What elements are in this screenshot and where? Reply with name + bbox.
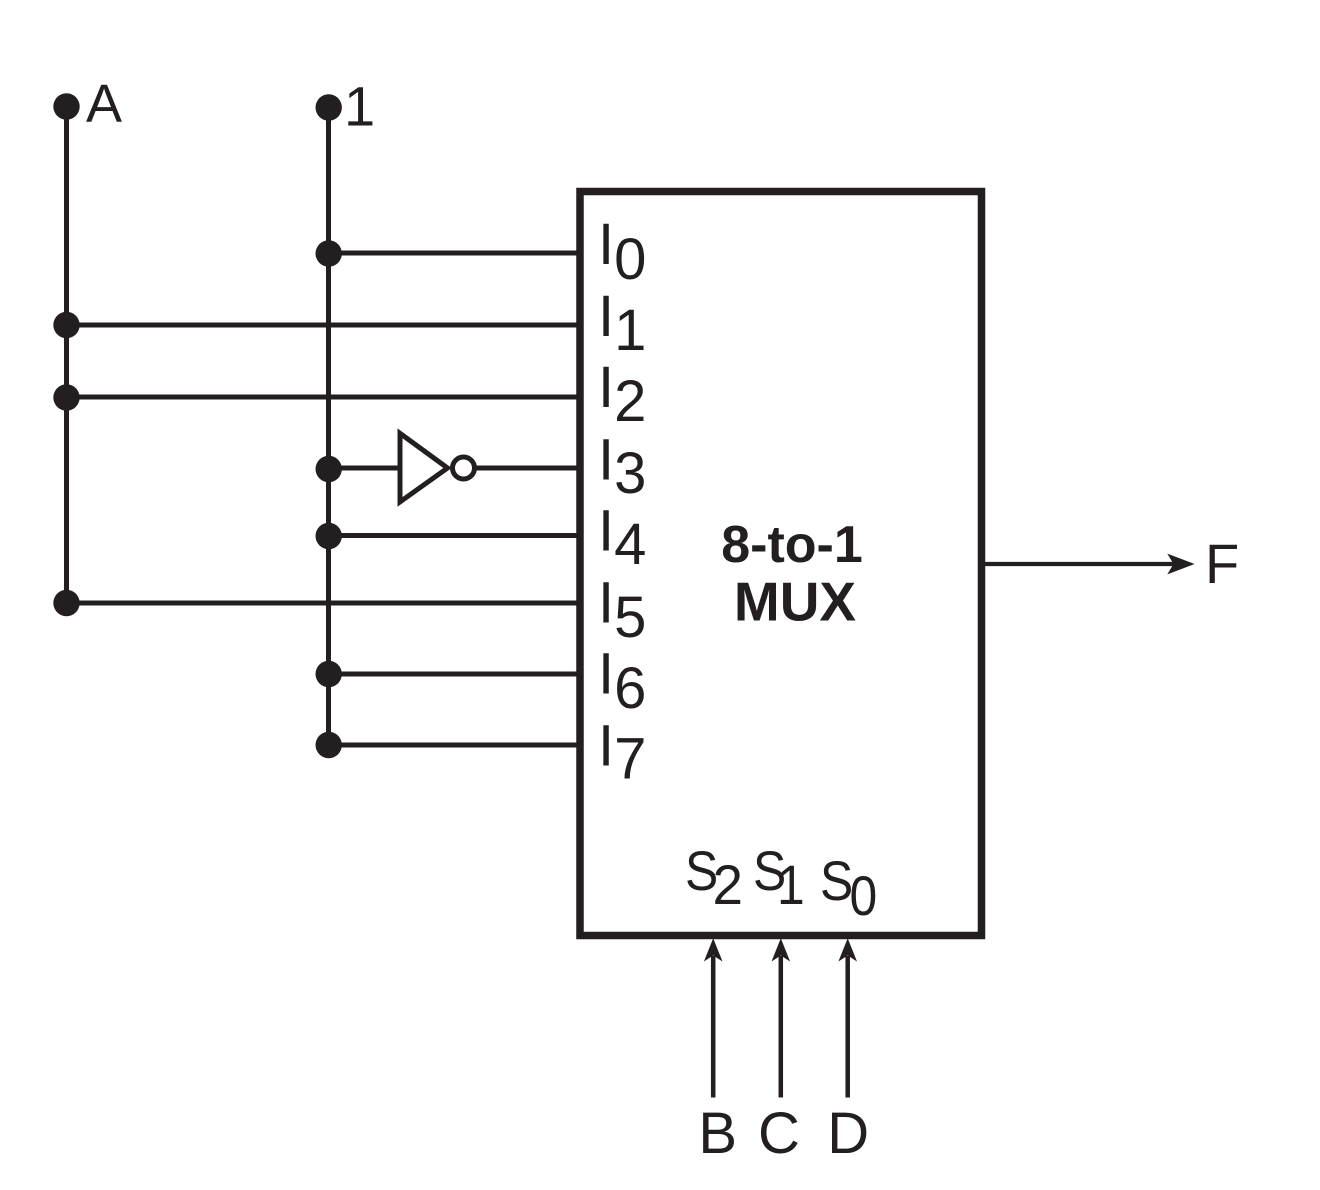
- pin label S1: [753, 840, 786, 902]
- wire I3 output segment (inverter bubble to MUX pin I3): [475, 466, 580, 471]
- MUX U1 body: [580, 192, 982, 936]
- node 1 terminal dot: [316, 94, 342, 120]
- svg-text:S: S: [820, 850, 853, 912]
- junction rail A / wire I5: [53, 590, 79, 616]
- select wire S1 (from C): [779, 956, 784, 1098]
- svg-text:MUX: MUX: [734, 571, 857, 633]
- junction rail 1 / wire I4: [316, 523, 342, 549]
- pin label S0: [820, 850, 853, 912]
- svg-text:C: C: [758, 1101, 800, 1166]
- wire I3 input segment (rail 1 to inverter): [328, 466, 400, 471]
- junction rail 1 / wire I3: [316, 456, 342, 482]
- wire I7 (rail 1 to MUX pin I7): [328, 743, 580, 748]
- net 1 rail (vertical wire): [326, 107, 331, 745]
- wire I6 (rail 1 to MUX pin I6): [328, 672, 580, 677]
- svg-text:F: F: [1205, 532, 1239, 595]
- wire I1 (rail A to MUX pin I1): [66, 323, 580, 328]
- select arrowhead S2: [704, 938, 723, 961]
- wire I2 (rail A to MUX pin I2): [66, 395, 580, 400]
- junction rail 1 / wire I7: [316, 732, 342, 758]
- select arrowhead S0: [838, 938, 857, 961]
- junction rail 1 / wire I0: [316, 240, 342, 266]
- wire I5 (rail A to MUX pin I5): [66, 601, 580, 606]
- svg-text:B: B: [698, 1101, 737, 1166]
- net A rail (vertical wire): [64, 107, 69, 603]
- svg-text:D: D: [827, 1101, 869, 1166]
- select wire S0 (from D): [845, 956, 850, 1098]
- svg-text:0: 0: [850, 865, 878, 927]
- junction rail A / wire I1: [53, 312, 79, 338]
- output arrowhead F: [1167, 554, 1194, 575]
- svg-text:2: 2: [713, 853, 744, 916]
- pin label S2: [685, 840, 718, 902]
- junction rail A / wire I2: [53, 384, 79, 410]
- output wire F: [983, 562, 1176, 566]
- node A terminal dot: [53, 93, 79, 119]
- svg-text:8-to-1: 8-to-1: [721, 516, 863, 574]
- inverter gate bubble: [453, 457, 475, 479]
- wire I4 (rail 1 to MUX pin I4): [328, 533, 580, 538]
- select wire S2 (from B): [711, 956, 716, 1098]
- junction rail 1 / wire I6: [316, 661, 342, 687]
- select arrowhead S1: [772, 938, 791, 961]
- inverter gate triangle: [400, 433, 448, 502]
- svg-text:1: 1: [344, 75, 375, 138]
- svg-text:1: 1: [777, 854, 805, 916]
- wire I0 (rail 1 to MUX pin I0): [328, 251, 580, 256]
- svg-text:A: A: [86, 74, 122, 134]
